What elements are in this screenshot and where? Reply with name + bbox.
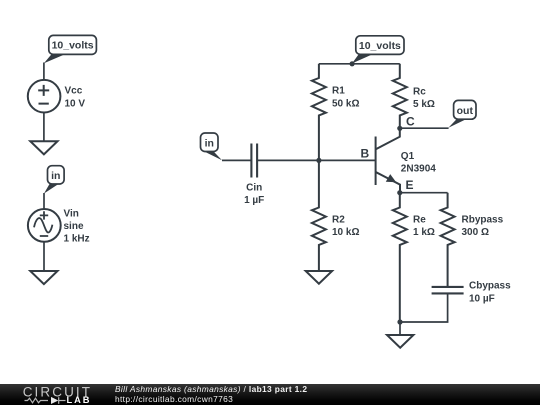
- wire Vcc to ground: [43, 113, 45, 142]
- label Cin 1 uF: [244, 183, 264, 207]
- resistor R1: [312, 64, 326, 161]
- svg-text:Rbypass: Rbypass: [462, 215, 504, 226]
- resistor Rc: [393, 64, 407, 129]
- node bottom junction: [397, 319, 402, 324]
- svg-text:50 kΩ: 50 kΩ: [332, 98, 359, 109]
- svg-text:in: in: [51, 170, 60, 182]
- node 10_volts junction: [350, 61, 355, 66]
- ground (emitter network): [387, 335, 413, 348]
- net flag out: [448, 100, 476, 127]
- label Re 1 kOhm: [413, 215, 435, 239]
- svg-text:1 µF: 1 µF: [244, 195, 264, 206]
- net flag in (Vin source): [44, 166, 64, 194]
- svg-text:Rc: Rc: [413, 87, 426, 98]
- svg-text:Cbypass: Cbypass: [469, 281, 511, 292]
- svg-text:Vin: Vin: [64, 208, 79, 219]
- capacitor Cbypass: [432, 287, 464, 294]
- svg-text:out: out: [457, 105, 474, 117]
- svg-text:Vcc: Vcc: [65, 86, 83, 97]
- svg-text:B: B: [361, 147, 370, 161]
- node E junction: [397, 190, 402, 195]
- svg-text:R1: R1: [332, 86, 345, 97]
- ground (Vcc): [30, 141, 57, 154]
- resistor Re: [393, 193, 407, 322]
- label Rbypass 300 Ohm: [462, 215, 504, 239]
- net flag in (base input): [201, 133, 223, 160]
- transistor Q1: [376, 128, 400, 192]
- label Vcc 10 V: [65, 86, 86, 110]
- svg-text:1 kHz: 1 kHz: [64, 234, 90, 245]
- svg-text:Re: Re: [413, 215, 426, 226]
- svg-text:10 V: 10 V: [65, 98, 86, 109]
- label R1 50 kOhm: [332, 86, 359, 110]
- resistor Rbypass: [441, 193, 455, 287]
- footer bar: [0, 384, 540, 405]
- svg-text:C: C: [406, 114, 415, 128]
- label Vin sine 1 kHz: [64, 208, 90, 244]
- node base junction: [316, 158, 321, 163]
- net flag 10_volts (Vcc source): [44, 35, 96, 63]
- svg-text:1 kΩ: 1 kΩ: [413, 227, 435, 238]
- svg-text:Q1: Q1: [401, 151, 415, 162]
- ground (R2): [306, 271, 332, 284]
- ground (Vin): [30, 271, 57, 284]
- label Cbypass 10 uF: [469, 281, 511, 305]
- net flag 10_volts (top of divider): [352, 36, 404, 64]
- svg-text:in: in: [205, 137, 214, 149]
- wire E to Rbypass: [400, 192, 448, 194]
- wire top rail: [319, 63, 400, 65]
- svg-text:10_volts: 10_volts: [359, 40, 401, 52]
- svg-text:R2: R2: [332, 215, 345, 226]
- label R2 10 kOhm: [332, 215, 359, 239]
- wire C to out: [400, 127, 449, 129]
- svg-text:300 Ω: 300 Ω: [462, 227, 489, 238]
- wire Cbypass to bottom rail: [400, 293, 448, 322]
- wire Cin to base: [257, 159, 376, 161]
- svg-text:2N3904: 2N3904: [401, 163, 436, 174]
- svg-text:10_volts: 10_volts: [52, 40, 94, 52]
- CircuitLab logo: [0, 384, 100, 405]
- wire Re bottom to ground: [399, 322, 401, 335]
- svg-text:sine: sine: [64, 221, 84, 232]
- wire Vin to ground: [43, 242, 45, 271]
- svg-text:5 kΩ: 5 kΩ: [413, 99, 435, 110]
- label Rc 5 kOhm: [413, 87, 435, 111]
- svg-text:10 kΩ: 10 kΩ: [332, 227, 359, 238]
- voltage source Vcc: [28, 80, 61, 113]
- capacitor Cin: [251, 144, 257, 178]
- svg-text:LAB: LAB: [67, 395, 92, 405]
- wire flag to Vcc: [43, 63, 45, 81]
- svg-text:10 µF: 10 µF: [469, 293, 495, 304]
- svg-text:E: E: [406, 178, 414, 192]
- voltage source Vin (sine): [28, 209, 61, 242]
- node C junction: [397, 126, 402, 131]
- footer credit text: [115, 385, 307, 405]
- svg-text:Cin: Cin: [246, 183, 262, 194]
- wire in to Cin: [222, 159, 251, 161]
- resistor R2: [312, 160, 326, 271]
- label Q1 2N3904: [401, 151, 436, 175]
- wire flag to Vin: [43, 193, 45, 209]
